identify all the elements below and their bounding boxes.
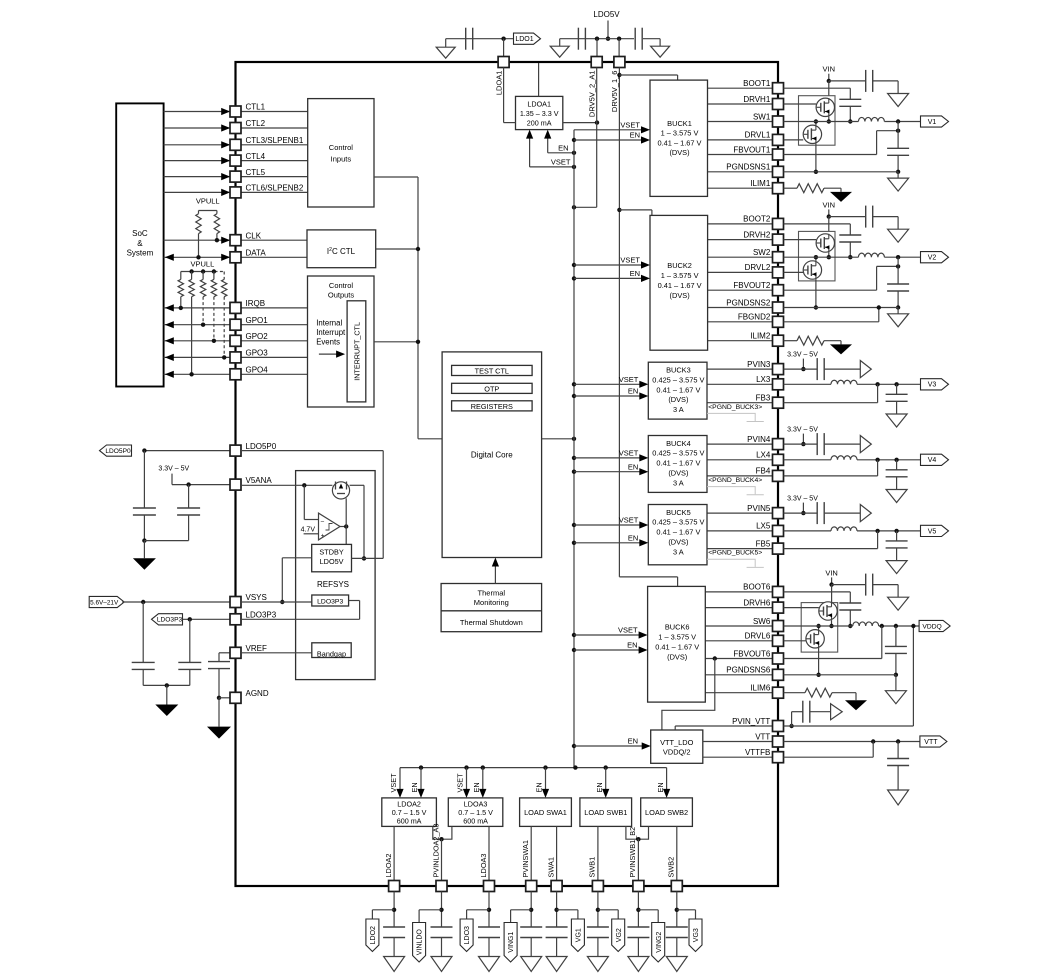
svg-text:Thermal: Thermal — [478, 588, 506, 597]
svg-text:BUCK2: BUCK2 — [667, 261, 692, 270]
svg-text:V4: V4 — [928, 457, 937, 464]
svg-text:EN: EN — [535, 782, 544, 792]
svg-text:0.41 – 1.67 V: 0.41 – 1.67 V — [658, 138, 702, 147]
svg-text:CTL2: CTL2 — [246, 119, 266, 128]
svg-text:(DVS): (DVS) — [667, 652, 687, 661]
svg-text:0.425 – 3.575 V: 0.425 – 3.575 V — [652, 449, 704, 458]
svg-text:STDBY: STDBY — [319, 548, 343, 557]
svg-text:V5ANA: V5ANA — [246, 476, 273, 485]
svg-text:3.3V – 5V: 3.3V – 5V — [158, 466, 189, 473]
svg-text:FBVOUT6: FBVOUT6 — [733, 649, 770, 658]
svg-text:SoC: SoC — [132, 229, 148, 238]
svg-text:SW2: SW2 — [753, 248, 771, 257]
svg-text:LX4: LX4 — [756, 451, 771, 460]
svg-text:Thermal Shutdown: Thermal Shutdown — [460, 618, 523, 627]
svg-text:SWB1: SWB1 — [588, 857, 597, 878]
svg-text:EN: EN — [630, 269, 640, 278]
svg-text:CTL4: CTL4 — [246, 152, 266, 161]
svg-text:SWB2: SWB2 — [667, 857, 676, 878]
svg-text:PVINSWA1: PVINSWA1 — [521, 840, 530, 877]
svg-text:LOAD SWB1: LOAD SWB1 — [584, 808, 627, 817]
svg-text:LX3: LX3 — [756, 375, 771, 384]
svg-text:VTT_LDO: VTT_LDO — [660, 738, 694, 747]
svg-text:LDO3P3: LDO3P3 — [317, 599, 343, 606]
svg-text:FB3: FB3 — [756, 394, 771, 403]
svg-text:1 – 3.575 V: 1 – 3.575 V — [661, 129, 699, 138]
svg-text:CTL5: CTL5 — [246, 168, 266, 177]
svg-text:(DVS): (DVS) — [669, 148, 689, 157]
svg-text:DRV5V_2_A1: DRV5V_2_A1 — [588, 71, 597, 118]
svg-text:3.3V – 5V: 3.3V – 5V — [787, 496, 818, 503]
svg-text:<PGND_BUCK3>: <PGND_BUCK3> — [708, 404, 762, 411]
svg-text:BUCK4: BUCK4 — [666, 439, 691, 448]
svg-text:0.7 – 1.5 V: 0.7 – 1.5 V — [458, 808, 493, 817]
svg-text:(DVS): (DVS) — [670, 291, 690, 300]
svg-text:VSET: VSET — [389, 773, 398, 793]
svg-text:0.41 – 1.67 V: 0.41 – 1.67 V — [655, 642, 699, 651]
svg-text:Bandgap: Bandgap — [317, 649, 346, 658]
svg-text:INTERRUPT_CTL: INTERRUPT_CTL — [353, 322, 362, 381]
svg-text:3 A: 3 A — [673, 547, 684, 556]
svg-text:EN: EN — [410, 782, 419, 792]
svg-text:1.35 – 3.3 V: 1.35 – 3.3 V — [520, 109, 559, 118]
svg-text:0.41 – 1.67 V: 0.41 – 1.67 V — [656, 385, 700, 394]
svg-text:V1: V1 — [928, 119, 937, 126]
svg-text:0.41 – 1.67 V: 0.41 – 1.67 V — [656, 459, 700, 468]
svg-text:1 – 3.575 V: 1 – 3.575 V — [661, 271, 699, 280]
svg-text:LDO3P3: LDO3P3 — [157, 617, 183, 624]
svg-text:BUCK3: BUCK3 — [666, 366, 691, 375]
svg-text:PGNDSNS1: PGNDSNS1 — [726, 163, 771, 172]
svg-text:600 mA: 600 mA — [397, 817, 422, 826]
svg-text:EN: EN — [628, 387, 638, 396]
svg-text:SW6: SW6 — [753, 617, 771, 626]
svg-text:BOOT1: BOOT1 — [743, 79, 771, 88]
svg-text:REFSYS: REFSYS — [317, 580, 349, 589]
svg-text:<PGND_BUCK4>: <PGND_BUCK4> — [708, 477, 762, 484]
svg-text:VINLDO: VINLDO — [417, 929, 424, 956]
svg-text:GPO2: GPO2 — [246, 332, 269, 341]
svg-text:GPO3: GPO3 — [246, 349, 269, 358]
svg-text:DRV5V_1_6: DRV5V_1_6 — [610, 71, 619, 113]
svg-text:(DVS): (DVS) — [668, 395, 688, 404]
svg-text:0.41 – 1.67 V: 0.41 – 1.67 V — [656, 528, 700, 537]
svg-text:PGNDSNS6: PGNDSNS6 — [726, 666, 771, 675]
svg-text:Inputs: Inputs — [331, 155, 352, 164]
svg-text:V2: V2 — [928, 255, 937, 262]
svg-text:LDO2: LDO2 — [370, 926, 377, 944]
svg-text:PGNDSNS2: PGNDSNS2 — [726, 298, 771, 307]
svg-text:VTTFB: VTTFB — [745, 748, 770, 757]
svg-text:DRVL1: DRVL1 — [745, 131, 771, 140]
svg-text:BOOT2: BOOT2 — [743, 215, 771, 224]
svg-text:VSET: VSET — [619, 375, 639, 384]
svg-text:Digital Core: Digital Core — [471, 450, 513, 459]
svg-text:3.3V – 5V: 3.3V – 5V — [787, 427, 818, 434]
svg-text:VIN: VIN — [823, 65, 836, 74]
svg-text:Control: Control — [329, 281, 354, 290]
svg-text:VIN: VIN — [823, 200, 836, 209]
svg-text:VSET: VSET — [551, 157, 571, 166]
svg-text:VSET: VSET — [620, 121, 640, 130]
svg-text:BOOT6: BOOT6 — [743, 583, 771, 592]
svg-text:VPULL: VPULL — [191, 259, 215, 268]
svg-text:FB4: FB4 — [756, 467, 771, 476]
svg-text:VSET: VSET — [620, 256, 640, 265]
svg-text:DRVH6: DRVH6 — [743, 598, 771, 607]
svg-text:VSET: VSET — [456, 773, 465, 793]
svg-text:LDOA3: LDOA3 — [479, 854, 488, 878]
svg-text:VREF: VREF — [246, 644, 267, 653]
svg-text:(DVS): (DVS) — [668, 469, 688, 478]
svg-text:Events: Events — [316, 338, 340, 347]
svg-text:ILIM1: ILIM1 — [750, 179, 771, 188]
svg-text:BUCK6: BUCK6 — [665, 622, 690, 631]
svg-text:REGISTERS: REGISTERS — [471, 402, 513, 411]
svg-text:600 mA: 600 mA — [463, 817, 488, 826]
svg-text:5.6V–21V: 5.6V–21V — [90, 599, 119, 606]
svg-text:LDOA2: LDOA2 — [397, 799, 421, 808]
svg-text:0.7 – 1.5 V: 0.7 – 1.5 V — [392, 808, 427, 817]
svg-text:Control: Control — [329, 143, 354, 152]
svg-text:VSET: VSET — [619, 449, 639, 458]
svg-text:VDDQ: VDDQ — [922, 623, 941, 630]
svg-text:Interrupt: Interrupt — [316, 328, 346, 337]
svg-text:FBGND2: FBGND2 — [738, 313, 771, 322]
svg-text:VTT: VTT — [924, 739, 938, 746]
svg-text:BUCK1: BUCK1 — [667, 119, 692, 128]
svg-text:LDO3: LDO3 — [464, 926, 471, 944]
svg-text:ILIM2: ILIM2 — [750, 332, 771, 341]
svg-text:LDO5V: LDO5V — [593, 10, 620, 19]
svg-text:EN: EN — [630, 131, 640, 140]
svg-text:GPO1: GPO1 — [246, 316, 269, 325]
svg-text:CLK: CLK — [246, 231, 262, 240]
svg-text:DRVL2: DRVL2 — [745, 263, 771, 272]
svg-text:LDO3P3: LDO3P3 — [246, 611, 277, 620]
svg-text:SWA1: SWA1 — [546, 857, 555, 877]
svg-text:EN: EN — [595, 782, 604, 792]
svg-text:VSET: VSET — [618, 626, 638, 635]
svg-text:LOAD SWB2: LOAD SWB2 — [645, 808, 688, 817]
svg-text:I2C CTL: I2C CTL — [327, 247, 356, 256]
svg-text:FBVOUT1: FBVOUT1 — [733, 145, 770, 154]
svg-text:ILIM6: ILIM6 — [750, 684, 771, 693]
svg-text:VG1: VG1 — [576, 928, 583, 942]
svg-text:V3: V3 — [928, 382, 937, 389]
svg-text:FBVOUT2: FBVOUT2 — [733, 281, 770, 290]
svg-text:Internal: Internal — [316, 319, 342, 328]
svg-text:1 – 3.575 V: 1 – 3.575 V — [658, 632, 696, 641]
svg-text:VSYS: VSYS — [246, 593, 267, 602]
svg-text:IRQB: IRQB — [246, 299, 266, 308]
svg-text:LOAD SWA1: LOAD SWA1 — [524, 808, 567, 817]
svg-text:EN: EN — [628, 534, 638, 543]
svg-text:EN: EN — [472, 782, 481, 792]
svg-text:+: + — [321, 533, 325, 539]
svg-text:PVINSWB1_B2: PVINSWB1_B2 — [628, 827, 637, 878]
svg-text:VSET: VSET — [619, 516, 639, 525]
svg-text:PVIN5: PVIN5 — [747, 504, 771, 513]
svg-text:DRVL6: DRVL6 — [745, 632, 771, 641]
svg-text:3 A: 3 A — [673, 405, 684, 414]
svg-text:FB5: FB5 — [756, 539, 771, 548]
svg-text:VING1: VING1 — [508, 932, 515, 953]
svg-text:&: & — [137, 239, 143, 248]
svg-text:LDOA2: LDOA2 — [384, 854, 393, 878]
svg-text:AGND: AGND — [246, 689, 269, 698]
svg-text:LDO5P0: LDO5P0 — [105, 448, 131, 455]
svg-text:TEST CTL: TEST CTL — [475, 367, 509, 376]
svg-text:EN: EN — [656, 782, 665, 792]
svg-text:VING2: VING2 — [656, 932, 663, 953]
svg-text:EN: EN — [628, 462, 638, 471]
svg-text:CTL3/SLPENB1: CTL3/SLPENB1 — [246, 136, 304, 145]
svg-text:VIN: VIN — [825, 568, 838, 577]
svg-text:PVINLDOA2_A3: PVINLDOA2_A3 — [431, 824, 440, 878]
svg-text:3 A: 3 A — [673, 478, 684, 487]
svg-text:<PGND_BUCK5>: <PGND_BUCK5> — [708, 550, 762, 557]
svg-text:LDO5V: LDO5V — [320, 557, 344, 566]
svg-text:Outputs: Outputs — [328, 290, 355, 299]
svg-text:0.425 – 3.575 V: 0.425 – 3.575 V — [652, 518, 704, 527]
svg-text:DRVH1: DRVH1 — [743, 95, 771, 104]
svg-text:0.425 – 3.575 V: 0.425 – 3.575 V — [652, 375, 704, 384]
svg-text:LDOA1: LDOA1 — [494, 71, 503, 96]
svg-text:VG2: VG2 — [616, 928, 623, 942]
svg-text:EN: EN — [628, 736, 638, 745]
svg-text:200 mA: 200 mA — [527, 118, 552, 127]
svg-text:PVIN3: PVIN3 — [747, 360, 771, 369]
svg-text:VTT: VTT — [755, 732, 770, 741]
svg-text:CTL6/SLPENB2: CTL6/SLPENB2 — [246, 184, 304, 193]
svg-text:DRVH2: DRVH2 — [743, 230, 771, 239]
svg-text:SW1: SW1 — [753, 112, 771, 121]
svg-text:Monitoring: Monitoring — [474, 598, 509, 607]
svg-text:PVIN_VTT: PVIN_VTT — [732, 717, 770, 726]
svg-text:GPO4: GPO4 — [246, 366, 269, 375]
svg-text:0.41 – 1.67 V: 0.41 – 1.67 V — [658, 281, 702, 290]
svg-text:4.7V: 4.7V — [301, 526, 316, 533]
svg-text:VG3: VG3 — [693, 928, 700, 942]
svg-text:EN: EN — [558, 143, 568, 152]
svg-text:LDO5P0: LDO5P0 — [246, 442, 277, 451]
svg-text:LDOA1: LDOA1 — [527, 99, 551, 108]
svg-text:(DVS): (DVS) — [668, 538, 688, 547]
svg-text:3.3V – 5V: 3.3V – 5V — [787, 352, 818, 359]
svg-text:LDOA3: LDOA3 — [464, 799, 488, 808]
svg-text:LDO1: LDO1 — [515, 36, 533, 43]
svg-text:CTL1: CTL1 — [246, 103, 266, 112]
svg-text:EN: EN — [627, 641, 637, 650]
svg-text:System: System — [127, 248, 154, 257]
svg-text:BUCK5: BUCK5 — [666, 508, 691, 517]
svg-text:OTP: OTP — [484, 385, 499, 394]
svg-text:VPULL: VPULL — [196, 196, 220, 205]
svg-text:PVIN4: PVIN4 — [747, 435, 771, 444]
svg-text:DATA: DATA — [246, 249, 267, 258]
svg-text:VDDQ/2: VDDQ/2 — [663, 747, 691, 756]
svg-text:V5: V5 — [928, 528, 937, 535]
svg-text:LX5: LX5 — [756, 522, 771, 531]
